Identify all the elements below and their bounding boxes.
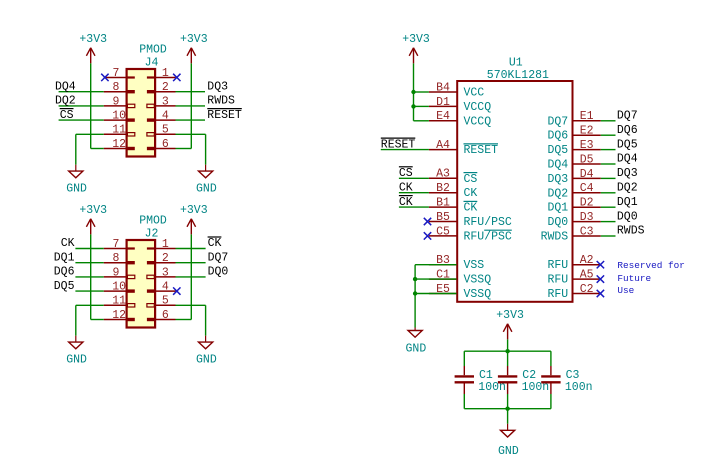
svg-text:RWDS: RWDS xyxy=(617,225,645,238)
wire xyxy=(399,192,429,194)
wire xyxy=(176,262,206,264)
svg-text:RWDS: RWDS xyxy=(541,231,569,244)
svg-text:GND: GND xyxy=(406,343,427,356)
svg-text:100n: 100n xyxy=(565,381,593,394)
wire xyxy=(601,177,616,179)
J2 pin 7 xyxy=(104,238,127,251)
svg-text:Future: Future xyxy=(617,273,651,284)
J4 pin 7 xyxy=(104,67,127,80)
svg-text:E3: E3 xyxy=(580,139,594,152)
capacitor C3 xyxy=(541,369,592,394)
svg-text:5: 5 xyxy=(162,124,169,137)
capacitor C2 legs xyxy=(507,351,509,409)
svg-text:9: 9 xyxy=(112,95,119,108)
svg-text:10: 10 xyxy=(112,110,126,123)
junction cap top rail xyxy=(505,349,509,353)
svg-text:CK: CK xyxy=(208,237,222,250)
svg-text:CK: CK xyxy=(464,202,478,215)
svg-text:A5: A5 xyxy=(580,269,594,282)
svg-text:2: 2 xyxy=(162,252,169,265)
U1 pin D1 (VCCQ) xyxy=(429,96,491,114)
net label RESET xyxy=(207,109,242,122)
svg-text:3: 3 xyxy=(162,266,169,279)
power symbol +3V3 (J2 right) xyxy=(180,204,208,234)
U1 pin C4 (DQ2) xyxy=(547,182,600,200)
svg-text:VCC: VCC xyxy=(464,87,485,100)
svg-text:2: 2 xyxy=(162,81,169,94)
ground symbol (J4 left) xyxy=(66,165,87,196)
net label DQ6 xyxy=(54,266,75,279)
svg-text:D4: D4 xyxy=(580,168,594,181)
note text Reserved for Future Use xyxy=(617,260,685,296)
svg-text:J4: J4 xyxy=(145,57,159,70)
svg-text:DQ1: DQ1 xyxy=(54,251,75,264)
J4 pin 8 notch xyxy=(127,90,134,93)
svg-text:VCCQ: VCCQ xyxy=(464,115,492,128)
junction cap bottom rail xyxy=(505,407,509,411)
J4 pin 5 xyxy=(155,124,175,137)
svg-text:B1: B1 xyxy=(436,197,450,210)
net label DQ3 xyxy=(207,80,228,93)
J2 pin 3 notch xyxy=(147,275,154,278)
junction VSSQ E5 xyxy=(413,291,417,295)
svg-text:VCCQ: VCCQ xyxy=(464,101,492,114)
svg-text:DQ2: DQ2 xyxy=(55,95,76,108)
net label RWDS xyxy=(207,95,235,108)
wire xyxy=(601,206,616,208)
svg-text:GND: GND xyxy=(196,354,217,367)
svg-text:CK: CK xyxy=(399,196,413,209)
svg-text:B5: B5 xyxy=(436,211,450,224)
J2 pin 2 xyxy=(155,252,175,265)
ground symbol (J2 left) xyxy=(66,336,87,367)
svg-text:D1: D1 xyxy=(436,96,450,109)
net label DQ5 xyxy=(54,280,75,293)
svg-text:DQ4: DQ4 xyxy=(547,159,568,172)
net label RWDS xyxy=(617,225,645,238)
svg-text:A3: A3 xyxy=(436,168,450,181)
U1 pin D2 (DQ1) xyxy=(547,197,600,215)
U1 pin C1 (VSSQ) xyxy=(429,269,491,287)
U1 pin E2 (DQ6) xyxy=(547,125,600,143)
power +3V3 J4-left net xyxy=(91,63,104,148)
svg-text:E2: E2 xyxy=(580,125,594,138)
svg-text:5: 5 xyxy=(162,295,169,308)
J2 pin 4 notch xyxy=(147,289,154,292)
no-connect U1 C5 xyxy=(424,232,431,239)
J2 pin 9 xyxy=(104,266,127,279)
net label CS xyxy=(60,109,74,122)
svg-text:+3V3: +3V3 xyxy=(79,204,107,217)
svg-text:DQ7: DQ7 xyxy=(547,115,568,128)
J4 pin 9 xyxy=(104,95,127,108)
J4 GND-right wire xyxy=(176,134,206,164)
net label RESET xyxy=(381,138,416,151)
svg-text:DQ3: DQ3 xyxy=(617,167,638,180)
no-connect U1 B5 xyxy=(424,218,431,225)
U1 pin E3 (DQ5) xyxy=(547,139,600,157)
svg-text:1: 1 xyxy=(162,238,169,251)
U1 pin B4 (VCC) xyxy=(429,81,484,99)
svg-text:CK: CK xyxy=(464,187,478,200)
power symbol +3V3 (U1) xyxy=(402,33,430,63)
U1 pin A3 (CS) xyxy=(429,168,478,186)
svg-text:7: 7 xyxy=(112,67,119,80)
J4 pin 9 notch xyxy=(127,104,134,107)
J2 pin 12 xyxy=(104,309,127,322)
svg-text:C5: C5 xyxy=(436,225,450,238)
svg-text:1: 1 xyxy=(162,67,169,80)
wire xyxy=(59,105,104,107)
net label DQ1 xyxy=(54,251,75,264)
svg-text:CS: CS xyxy=(399,167,413,180)
no-connect U1 A2 xyxy=(597,261,604,268)
wire xyxy=(176,119,206,121)
wire xyxy=(75,248,103,250)
J4 pin 12 xyxy=(104,138,127,151)
svg-text:RFU: RFU xyxy=(547,259,568,272)
no-connect U1 C2 xyxy=(597,290,604,297)
wire xyxy=(176,276,206,278)
net label DQ4 xyxy=(617,153,638,166)
svg-text:DQ5: DQ5 xyxy=(54,280,75,293)
U1 pin E4 (VCCQ) xyxy=(429,110,491,128)
J4 pin 8 xyxy=(104,81,127,94)
svg-text:PMOD: PMOD xyxy=(139,215,167,228)
net label DQ2 xyxy=(55,95,76,108)
wire xyxy=(601,235,616,237)
svg-text:DQ3: DQ3 xyxy=(207,80,228,93)
J4 pin 6 notch xyxy=(147,147,154,150)
svg-text:CS: CS xyxy=(464,173,478,186)
power symbol +3V3 (J4 left) xyxy=(79,33,107,63)
net label CK xyxy=(399,196,413,209)
J4 pin 6 xyxy=(155,138,175,151)
ground symbol (J2 right) xyxy=(196,336,217,367)
net label DQ7 xyxy=(617,110,638,123)
U1 pin B3 (VSS) xyxy=(429,254,484,272)
wire xyxy=(59,119,104,121)
svg-text:DQ4: DQ4 xyxy=(617,153,638,166)
svg-text:E4: E4 xyxy=(436,110,450,123)
J2 pin 4 xyxy=(155,281,175,294)
U1 VSS net wire xyxy=(415,265,456,328)
no-connect U1 A5 xyxy=(597,275,604,282)
capacitor C1 xyxy=(455,369,506,394)
svg-text:C2: C2 xyxy=(580,283,594,296)
J4 pin 1 xyxy=(155,67,175,80)
no-connect J4 pin 1 xyxy=(173,74,180,81)
svg-text:12: 12 xyxy=(112,138,126,151)
J4 pin 7 notch xyxy=(127,76,134,78)
net label CK xyxy=(61,237,75,250)
J2 pin 12 notch xyxy=(127,318,134,321)
J2 pin 3 xyxy=(155,266,175,279)
svg-text:D2: D2 xyxy=(580,197,594,210)
J4 pin 5 notch xyxy=(147,133,154,136)
J4 pin 4 notch xyxy=(147,118,154,121)
svg-text:RFU/PSC: RFU/PSC xyxy=(464,216,512,229)
J2 pin 7 notch xyxy=(127,247,134,249)
capacitor C2 xyxy=(498,369,549,394)
J4 pin 10 notch xyxy=(127,118,134,121)
svg-text:GND: GND xyxy=(66,354,87,367)
no-connect J4 pin 7 xyxy=(101,74,108,81)
U1 pin A4 (RESET) xyxy=(429,139,498,157)
wire xyxy=(399,206,429,208)
svg-text:RWDS: RWDS xyxy=(207,95,235,108)
svg-text:DQ0: DQ0 xyxy=(208,266,229,279)
svg-text:11: 11 xyxy=(112,295,126,308)
svg-text:7: 7 xyxy=(112,238,119,251)
power +3V3 J2-left net xyxy=(91,234,104,319)
J4 pin 3 notch xyxy=(147,104,154,107)
J2 pin 5 xyxy=(155,295,175,308)
power +3V3 J2-right net xyxy=(176,234,192,319)
wire xyxy=(176,91,206,93)
U1 pin C5 (RFU/PSC) xyxy=(429,225,512,243)
net label DQ5 xyxy=(617,138,638,151)
svg-text:C3: C3 xyxy=(566,369,580,382)
J4 pin 2 notch xyxy=(147,90,154,93)
J4 pin 10 xyxy=(104,110,127,123)
svg-text:+3V3: +3V3 xyxy=(180,33,208,46)
U1 pin D4 (DQ3) xyxy=(547,168,600,186)
ground symbol (capacitors) xyxy=(498,424,519,458)
J2 pin 6 xyxy=(155,309,175,322)
svg-text:DQ5: DQ5 xyxy=(617,138,638,151)
capacitor C1 legs xyxy=(463,351,465,409)
svg-text:Use: Use xyxy=(617,285,634,296)
svg-text:RESET: RESET xyxy=(207,109,242,122)
wire xyxy=(75,276,103,278)
J2 pin 2 notch xyxy=(147,261,154,264)
J4 pin 3 xyxy=(155,95,175,108)
svg-text:DQ0: DQ0 xyxy=(617,210,638,223)
svg-text:+3V3: +3V3 xyxy=(79,33,107,46)
junction VCC B4 xyxy=(411,90,415,94)
svg-text:DQ3: DQ3 xyxy=(547,173,568,186)
wire xyxy=(601,163,616,165)
J4 pin 12 notch xyxy=(127,147,134,150)
J2 pin 8 xyxy=(104,252,127,265)
svg-text:GND: GND xyxy=(498,445,519,458)
net label DQ0 xyxy=(617,210,638,223)
connector J2 body xyxy=(127,240,156,328)
net label DQ7 xyxy=(208,251,229,264)
U1 pin E1 (DQ7) xyxy=(547,110,600,128)
connector J4 body xyxy=(127,69,156,157)
svg-text:CK: CK xyxy=(61,237,75,250)
wire xyxy=(399,177,429,179)
net label DQ3 xyxy=(617,167,638,180)
svg-text:6: 6 xyxy=(162,309,169,322)
net label CS xyxy=(399,167,413,180)
svg-text:RFU/PSC: RFU/PSC xyxy=(464,230,512,243)
svg-text:DQ7: DQ7 xyxy=(617,110,638,123)
svg-text:J2: J2 xyxy=(145,228,159,241)
svg-text:A2: A2 xyxy=(580,254,594,267)
net label CK xyxy=(208,237,222,250)
wire xyxy=(601,134,616,136)
net label DQ6 xyxy=(617,124,638,137)
svg-text:RESET: RESET xyxy=(464,144,499,157)
J2 pin 11 notch xyxy=(127,304,134,307)
power +3V3 J4-right net xyxy=(176,63,192,148)
J2 pin 5 notch xyxy=(147,304,154,307)
J4 pin 1 notch xyxy=(147,76,154,78)
J2 pin 10 xyxy=(104,281,127,294)
svg-text:GND: GND xyxy=(196,183,217,196)
J2 GND-left wire xyxy=(76,305,104,335)
svg-text:DQ1: DQ1 xyxy=(617,196,638,209)
svg-text:Reserved for: Reserved for xyxy=(617,260,685,271)
svg-text:VSSQ: VSSQ xyxy=(464,274,492,287)
U1 pin B1 (CK) xyxy=(429,197,478,215)
svg-text:VSSQ: VSSQ xyxy=(464,288,492,301)
U1 pin A5 (RFU) xyxy=(547,269,600,287)
svg-text:10: 10 xyxy=(112,281,126,294)
svg-text:D5: D5 xyxy=(580,153,594,166)
svg-text:CS: CS xyxy=(60,109,74,122)
net label DQ4 xyxy=(55,80,76,93)
wire xyxy=(176,248,206,250)
svg-text:DQ6: DQ6 xyxy=(54,266,75,279)
wire xyxy=(601,221,616,223)
svg-text:8: 8 xyxy=(112,81,119,94)
svg-text:A4: A4 xyxy=(436,139,450,152)
svg-text:+3V3: +3V3 xyxy=(180,204,208,217)
svg-text:U1: U1 xyxy=(509,57,523,70)
power symbol +3V3 (J4 right) xyxy=(180,33,208,63)
capacitor bank +3V3 wire xyxy=(507,339,509,351)
J2 pin 11 xyxy=(104,295,127,308)
svg-text:6: 6 xyxy=(162,138,169,151)
svg-text:+3V3: +3V3 xyxy=(402,33,430,46)
svg-text:RFU: RFU xyxy=(547,288,568,301)
svg-text:4: 4 xyxy=(162,110,169,123)
svg-text:CK: CK xyxy=(399,181,413,194)
J2 GND-right wire xyxy=(176,305,206,335)
U1 pin C3 (RWDS) xyxy=(541,225,601,243)
svg-text:B2: B2 xyxy=(436,182,450,195)
U1 pin E5 (VSSQ) xyxy=(429,283,491,301)
svg-text:C4: C4 xyxy=(580,182,594,195)
svg-text:DQ1: DQ1 xyxy=(547,202,568,215)
U1 pin D5 (DQ4) xyxy=(547,153,600,171)
svg-text:VSS: VSS xyxy=(464,259,485,272)
J4 pin 2 xyxy=(155,81,175,94)
wire xyxy=(59,91,104,93)
capacitor bottom rail wire xyxy=(464,408,551,410)
svg-text:DQ5: DQ5 xyxy=(547,144,568,157)
J4 pin 11 notch xyxy=(127,133,134,136)
wire xyxy=(381,149,429,151)
J4 GND-left wire xyxy=(76,134,104,164)
U1 pin B5 (RFU/PSC) xyxy=(429,211,512,229)
U1 pin C2 (RFU) xyxy=(547,283,600,301)
IC U1 body xyxy=(457,81,572,302)
junction VCCQ D1 xyxy=(411,104,415,108)
capacitor bank GND wire xyxy=(507,409,509,424)
svg-text:DQ6: DQ6 xyxy=(617,124,638,137)
J2 pin 8 notch xyxy=(127,261,134,264)
svg-text:12: 12 xyxy=(112,309,126,322)
net label DQ0 xyxy=(208,266,229,279)
wire xyxy=(176,105,206,107)
wire xyxy=(601,192,616,194)
svg-text:4: 4 xyxy=(162,281,169,294)
svg-text:+3V3: +3V3 xyxy=(496,309,524,322)
power symbol +3V3 (capacitors) xyxy=(496,309,524,339)
J2 pin 10 notch xyxy=(127,289,134,292)
net label CK xyxy=(399,181,413,194)
svg-text:RFU: RFU xyxy=(547,274,568,287)
svg-text:DQ4: DQ4 xyxy=(55,80,76,93)
ground symbol (U1 VSS) xyxy=(406,328,427,356)
wire xyxy=(75,290,103,292)
svg-text:B4: B4 xyxy=(436,81,450,94)
power +3V3 U1 net xyxy=(414,63,429,121)
J2 pin 1 notch xyxy=(147,247,154,249)
svg-text:DQ6: DQ6 xyxy=(547,130,568,143)
ground symbol (J4 right) xyxy=(196,165,217,196)
J2 pin 9 notch xyxy=(127,275,134,278)
capacitor C3 legs xyxy=(550,351,552,409)
svg-text:C3: C3 xyxy=(580,225,594,238)
svg-text:570KL1281: 570KL1281 xyxy=(487,69,549,82)
svg-text:RESET: RESET xyxy=(381,138,416,151)
svg-text:DQ2: DQ2 xyxy=(547,187,568,200)
capacitor top rail wire xyxy=(464,350,551,352)
svg-text:8: 8 xyxy=(112,252,119,265)
net label DQ2 xyxy=(617,182,638,195)
svg-text:E1: E1 xyxy=(580,110,594,123)
svg-text:DQ7: DQ7 xyxy=(208,251,229,264)
svg-text:3: 3 xyxy=(162,95,169,108)
U1 pin A2 (RFU) xyxy=(547,254,600,272)
wire xyxy=(601,149,616,151)
U1 pin D3 (DQ0) xyxy=(547,211,600,229)
svg-text:DQ2: DQ2 xyxy=(617,182,638,195)
U1 pin B2 (CK) xyxy=(429,182,478,200)
svg-text:D3: D3 xyxy=(580,211,594,224)
svg-text:C1: C1 xyxy=(479,369,493,382)
junction VSSQ C1 xyxy=(413,277,417,281)
no-connect J2 pin 4 xyxy=(173,287,180,294)
svg-text:C2: C2 xyxy=(522,369,536,382)
svg-text:GND: GND xyxy=(66,183,87,196)
svg-text:PMOD: PMOD xyxy=(139,44,167,57)
J4 pin 4 xyxy=(155,110,175,123)
wire xyxy=(601,120,616,122)
svg-text:11: 11 xyxy=(112,124,126,137)
J2 pin 6 notch xyxy=(147,318,154,321)
J2 pin 1 xyxy=(155,238,175,251)
net label DQ1 xyxy=(617,196,638,209)
svg-text:DQ0: DQ0 xyxy=(547,216,568,229)
power symbol +3V3 (J2 left) xyxy=(79,204,107,234)
svg-text:9: 9 xyxy=(112,266,119,279)
wire xyxy=(75,262,103,264)
J4 pin 11 xyxy=(104,124,127,137)
